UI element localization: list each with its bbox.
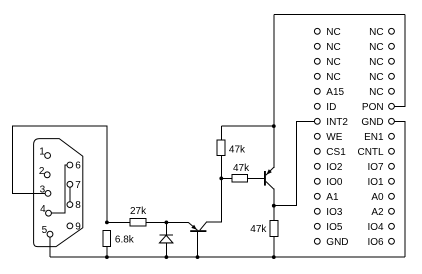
svg-text:1: 1 — [39, 147, 45, 158]
svg-text:6.8k: 6.8k — [115, 234, 135, 245]
pin 5 — [47, 231, 53, 237]
svg-text:IO0: IO0 — [326, 177, 343, 188]
svg-text:A1: A1 — [326, 192, 339, 203]
pin 2L NC — [314, 43, 320, 49]
diode D1 clamp — [165, 222, 167, 235]
svg-text:A0: A0 — [371, 192, 384, 203]
resistor R2 27k body — [130, 219, 146, 226]
wire GND pin to bottom rail right edge — [395, 121, 405, 257]
svg-text:IO6: IO6 — [367, 237, 384, 248]
wire card outline right edge to PON — [395, 14, 405, 106]
svg-text:NC: NC — [326, 57, 340, 68]
svg-text:6: 6 — [75, 161, 81, 172]
pin 6 — [67, 162, 73, 168]
svg-text:IO4: IO4 — [367, 222, 384, 233]
transistor Q2 PNP — [264, 171, 266, 186]
svg-text:IO7: IO7 — [367, 162, 384, 173]
pin 4R NC — [389, 73, 395, 79]
pin 8L WE — [314, 133, 320, 139]
svg-text:4: 4 — [40, 204, 46, 215]
svg-text:IO5: IO5 — [326, 222, 343, 233]
resistor R3 47k vertical body — [217, 140, 225, 156]
pin 12L A1 — [314, 193, 320, 199]
resistor R4 47k horizontal body — [232, 174, 248, 182]
pin 2 — [44, 172, 50, 178]
svg-text:NC: NC — [369, 42, 383, 53]
svg-text:NC: NC — [369, 27, 383, 38]
svg-text:GND: GND — [361, 117, 383, 128]
node 27k/6.8k junction — [105, 221, 109, 225]
svg-text:8: 8 — [75, 200, 81, 211]
wire 6.8k to rail — [106, 247, 108, 257]
svg-text:NC: NC — [369, 72, 383, 83]
svg-text:ID: ID — [326, 102, 336, 113]
svg-text:47k: 47k — [250, 224, 267, 235]
svg-text:2: 2 — [39, 166, 45, 177]
pin 7 — [67, 181, 73, 187]
transistor Q1 — [190, 230, 206, 232]
pin 10L IO2 — [314, 163, 320, 169]
resistor R5 47k pulldown body — [273, 206, 275, 221]
pin 8R EN1 — [389, 133, 395, 139]
svg-text:NC: NC — [369, 87, 383, 98]
node Q2 collector junction — [272, 204, 276, 208]
pin 1 — [45, 153, 51, 159]
pin 7L INT2 — [314, 118, 320, 124]
pin 4 — [46, 210, 52, 216]
svg-text:CNTL: CNTL — [357, 147, 384, 158]
svg-text:WE: WE — [326, 132, 342, 143]
pin 3 — [45, 191, 51, 197]
pin 13L IO3 — [314, 208, 320, 214]
wire card outline left edge down to emitter node — [273, 14, 275, 126]
wire top rail to card — [221, 125, 273, 127]
svg-text:INT2: INT2 — [326, 117, 348, 128]
svg-text:PON: PON — [362, 102, 384, 113]
svg-text:5: 5 — [42, 225, 48, 236]
svg-text:NC: NC — [369, 57, 383, 68]
pin 11R IO1 — [389, 178, 395, 184]
pin 9L CS1 — [314, 148, 320, 154]
svg-text:IO1: IO1 — [367, 177, 384, 188]
pin 14L IO5 — [314, 223, 320, 229]
svg-text:NC: NC — [326, 72, 340, 83]
pin 3R NC — [389, 58, 395, 64]
wire pin3 loop over connector to 27k node — [12, 126, 107, 222]
pin 14R IO4 — [389, 223, 395, 229]
svg-text:47k: 47k — [233, 163, 250, 174]
svg-text:7: 7 — [75, 180, 81, 191]
pin 5R NC — [389, 88, 395, 94]
svg-text:9: 9 — [75, 221, 81, 232]
wire 27k node to resistor — [107, 221, 130, 223]
pin 15L GND — [314, 238, 320, 244]
pin 5L A15 — [314, 88, 320, 94]
wire ground bottom rail — [50, 256, 405, 258]
pin 3L NC — [314, 58, 320, 64]
connector J1 DB9 outline — [34, 139, 83, 247]
pin 15R IO6 — [389, 238, 395, 244]
resistor R1 6.8k body — [103, 231, 110, 247]
pin 9R CNTL — [389, 148, 395, 154]
svg-text:NC: NC — [326, 27, 340, 38]
svg-text:47k: 47k — [229, 145, 246, 156]
pin 13R A2 — [389, 208, 395, 214]
pin 10R IO7 — [389, 163, 395, 169]
pin 1R NC — [389, 28, 395, 34]
node diode top junction — [165, 221, 169, 225]
pin 9 — [67, 223, 73, 229]
svg-text:IO2: IO2 — [326, 162, 343, 173]
svg-text:A15: A15 — [326, 87, 344, 98]
pin 1L NC — [314, 28, 320, 34]
wire 27k to Q1 — [146, 221, 188, 223]
node supply rail junction — [272, 124, 276, 128]
node rail junctions — [105, 255, 109, 259]
svg-text:IO3: IO3 — [326, 207, 343, 218]
pin 6R PON — [389, 103, 395, 109]
svg-text:CS1: CS1 — [326, 147, 346, 158]
pin 7R GND — [389, 118, 395, 124]
pin 2R NC — [389, 43, 395, 49]
svg-text:EN1: EN1 — [364, 132, 384, 143]
node Q1 collector / R3 R4 junction — [219, 177, 223, 181]
svg-text:27k: 27k — [130, 206, 147, 217]
svg-text:GND: GND — [326, 237, 348, 248]
wire INT2 to transistor Q2 collector node — [274, 121, 314, 205]
pin 8 — [67, 202, 73, 208]
wire pin7 to pin8 jumper — [69, 187, 71, 202]
pin 11L IO0 — [314, 178, 320, 184]
pin 6L ID — [314, 103, 320, 109]
pin 12R A0 — [389, 193, 395, 199]
wire card outline top edge — [274, 13, 405, 15]
wire pin5 to ground rail — [49, 237, 51, 257]
svg-text:A2: A2 — [371, 207, 384, 218]
wire pin4 to pin6 jumper — [51, 165, 67, 213]
svg-text:NC: NC — [326, 42, 340, 53]
pin 4L NC — [314, 73, 320, 79]
